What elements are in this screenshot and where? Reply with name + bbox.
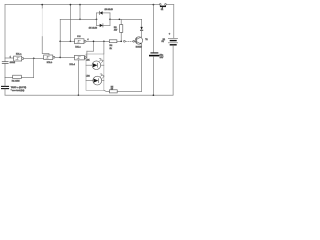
wire rail drop x70: [69, 5, 71, 42]
svg-text:5 6: 5 6: [77, 36, 81, 38]
svg-text:S1: S1: [161, 9, 163, 11]
node junction dot gateA input tap: [59, 40, 61, 42]
resistor R3: [109, 40, 117, 43]
connector circle right: [133, 40, 135, 42]
node rail dot x70: [70, 4, 72, 6]
svg-text:9V: 9V: [162, 41, 165, 43]
diode D2 pointing right: [100, 24, 103, 27]
wire top supply rail left section: [5, 4, 160, 6]
node rail dot x80: [79, 4, 81, 6]
svg-text:4: 4: [87, 39, 88, 41]
svg-text:2: 2: [14, 62, 15, 64]
op-amp IC1-a schmitt gate: [14, 56, 24, 61]
node junction dot R2 bottom: [120, 40, 122, 42]
node junction dot LED right tap: [103, 40, 105, 42]
node junction dot diode loop exit: [109, 18, 111, 20]
svg-text:1k: 1k: [110, 48, 113, 50]
wire gate2 output: [55, 56, 75, 58]
wire LED right bus upper: [103, 41, 105, 54]
svg-text:1: 1: [10, 56, 11, 58]
svg-text:1N 4148: 1N 4148: [105, 9, 114, 11]
node junction dot feedback tap: [33, 57, 35, 59]
svg-text:+: +: [169, 32, 171, 35]
wire signal after diode loop: [110, 18, 142, 20]
svg-text:R3: R3: [114, 27, 118, 29]
diode loop top branch wire: [97, 12, 111, 14]
node rail dot x42: [41, 4, 43, 6]
wire LED2 left stub: [86, 80, 93, 82]
wire gate1 output to gate2 input: [24, 57, 44, 59]
node junction dot cap rail x153: [153, 4, 155, 6]
LED LD1: [92, 58, 103, 69]
wire left vertical rail mid: [4, 64, 6, 78]
wire gateA input: [60, 40, 74, 42]
svg-text:1N 4148: 1N 4148: [89, 28, 98, 30]
node junction dot LED left tap: [93, 40, 95, 42]
svg-text:LD1: LD1: [86, 60, 91, 62]
transistor T1: [135, 37, 142, 44]
dashed link wire: [125, 40, 132, 42]
wire gate3 bottom pin to rail: [77, 60, 79, 95]
op-amp IC1-b schmitt gate: [44, 55, 55, 60]
resistor R1: [13, 75, 22, 78]
capacitor C3 electrolytic: [150, 53, 159, 56]
LED LD2: [93, 74, 105, 85]
wire cap drop x153 lower: [152, 56, 154, 95]
svg-text:R1 10M: R1 10M: [12, 81, 20, 83]
svg-text:IC1-a: IC1-a: [16, 54, 22, 56]
resistor R5 on led return wire: [109, 90, 117, 93]
wire R5 to emitter corner: [117, 90, 141, 92]
wire to transistor base: [135, 40, 137, 42]
diode loop left vertical: [96, 13, 98, 26]
svg-text:16V: 16V: [160, 57, 164, 59]
bottom supply rail: [5, 94, 173, 96]
wire R2 top stub: [120, 19, 122, 41]
resistor R2 vertical: [120, 25, 123, 33]
capacitor C1: [2, 62, 8, 64]
wire left vertical rail upper: [4, 5, 6, 62]
wire R3 to base with connector: [117, 40, 121, 42]
op-amp IC1-c schmitt gate: [75, 39, 86, 44]
wire cap drop x153 upper: [152, 5, 154, 53]
svg-text:10: 10: [111, 89, 113, 91]
node junction dot gate2 output tap: [59, 57, 61, 59]
wire LED1 left stub: [86, 64, 92, 66]
switch S1: [160, 4, 167, 9]
wire collector riser: [141, 19, 143, 27]
wire rail drop to gate2 top: [41, 5, 43, 9]
wire LED box bottom to R5: [104, 90, 110, 91]
node junction dot gate3 pin on rail: [78, 94, 80, 96]
op-amp IC1-d schmitt gate: [75, 55, 87, 60]
wire emitter drop: [141, 44, 143, 91]
node junction dot R2 tap: [119, 18, 121, 20]
node junction dot rail drop x70: [70, 40, 72, 42]
wire gateA output: [86, 40, 109, 42]
LED enclosure box: [86, 54, 104, 90]
wire top supply rail right section: [166, 4, 174, 6]
wire feedback vertical: [33, 58, 35, 77]
svg-text:* see text (4x): * see text (4x): [11, 89, 25, 92]
wire right rail top: [173, 5, 175, 39]
battery B1: [168, 38, 177, 44]
wire battery bottom to rail: [172, 45, 174, 95]
diode D3 on collector: [140, 27, 142, 37]
wire signal riser x60: [59, 19, 61, 57]
diode loop right vertical: [109, 13, 111, 26]
svg-text:TAND + (0.5 W): TAND + (0.5 W): [11, 86, 27, 89]
wire LED2 right stub: [102, 80, 104, 82]
diode loop bottom branch wire: [97, 24, 111, 26]
capacitor C2 electrolytic bottom left: [2, 86, 9, 88]
wire LED1 right stub: [101, 64, 104, 66]
node junction dot cap bottom rail: [153, 94, 155, 96]
svg-text:IC1-c: IC1-c: [75, 46, 81, 48]
svg-text:IC1-b: IC1-b: [47, 62, 53, 64]
wire gate1 input: [5, 57, 14, 59]
diode D1 pointing left: [99, 11, 102, 14]
connector circle left: [124, 40, 126, 42]
wire rail drop x80: [79, 5, 81, 20]
wire feedback bottom horizontal: [5, 77, 34, 79]
wire led feed horizontal: [87, 50, 94, 52]
wire gate3 output riser: [85, 51, 88, 57]
wire C2 top stub: [4, 78, 6, 87]
wire C2 bottom stub: [4, 89, 6, 95]
wire led feed from gateC output: [93, 41, 95, 51]
node junction dot diode loop entry: [96, 18, 98, 20]
svg-text:IC1-d: IC1-d: [70, 64, 76, 66]
svg-text:LD2: LD2: [86, 76, 91, 78]
node junction dot x80 on signal wire: [79, 18, 81, 20]
wire signal top horizontal: [60, 18, 96, 20]
svg-text:4k7: 4k7: [114, 30, 118, 32]
svg-text:T1: T1: [145, 39, 148, 41]
